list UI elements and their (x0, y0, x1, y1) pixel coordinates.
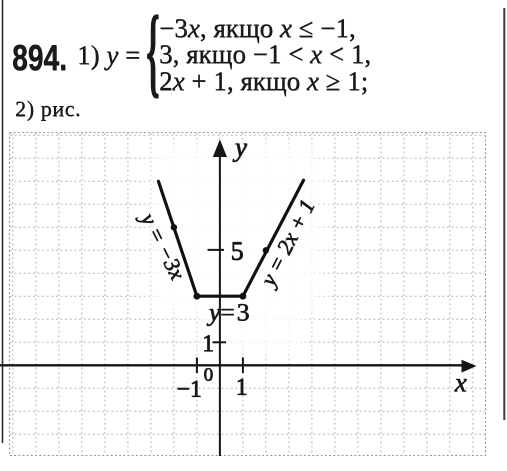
svg-text:0: 0 (204, 365, 214, 386)
svg-text:1: 1 (202, 331, 214, 357)
svg-text:5: 5 (231, 237, 244, 266)
svg-text:1: 1 (236, 375, 248, 401)
svg-text:−1: −1 (176, 377, 202, 403)
svg-text:x: x (454, 367, 467, 397)
svg-text:y= 3: y= 3 (206, 297, 250, 326)
svg-text:y: y (232, 132, 247, 162)
